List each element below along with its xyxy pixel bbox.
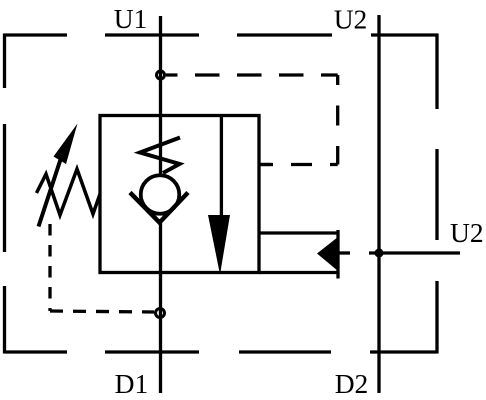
node junction top (U1 pilot): [157, 71, 165, 79]
valve body rectangle: [100, 116, 259, 273]
wire channel right vertical: [336, 230, 339, 279]
svg-text:D2: D2: [335, 368, 369, 399]
flow arrow left (filled) at channel: [317, 237, 338, 271]
svg-text:U1: U1: [114, 3, 148, 34]
pilot dashed line top (node to right then down to body): [166, 73, 338, 76]
wire stub right of arrow: [338, 251, 350, 254]
adjustment arrow shaft: [39, 158, 62, 227]
node junction bottom (D1 pilot): [156, 309, 165, 318]
wire U2 output line: [369, 251, 460, 254]
wire port line U1-D1 upper: [159, 16, 162, 174]
svg-text:U2: U2: [450, 217, 484, 248]
wire channel top: [259, 231, 338, 234]
adjustable spring zigzag: [37, 169, 101, 215]
svg-text:D1: D1: [115, 368, 149, 399]
svg-text:U2: U2: [334, 3, 368, 34]
check valve poppet circle: [141, 175, 180, 214]
check valve seat V: [130, 193, 188, 223]
outer dashed envelope left: [3, 34, 6, 354]
flow arrow down (filled): [220, 116, 223, 217]
adjustment arrow head: [54, 124, 78, 165]
wire body bottom extension to channel: [259, 271, 338, 274]
outer dashed envelope bottom: [4, 350, 438, 353]
wire port line U2-D2: [377, 15, 380, 393]
wire port line U1-D1 lower: [159, 221, 162, 393]
outer dashed envelope right: [435, 34, 438, 354]
wire pilot stub at body right edge: [259, 163, 271, 166]
node junction U2 line: [375, 249, 384, 258]
pilot dashed line left (spring drain): [48, 224, 51, 311]
check valve spring: [140, 138, 180, 174]
outer dashed envelope top: [4, 33, 438, 36]
